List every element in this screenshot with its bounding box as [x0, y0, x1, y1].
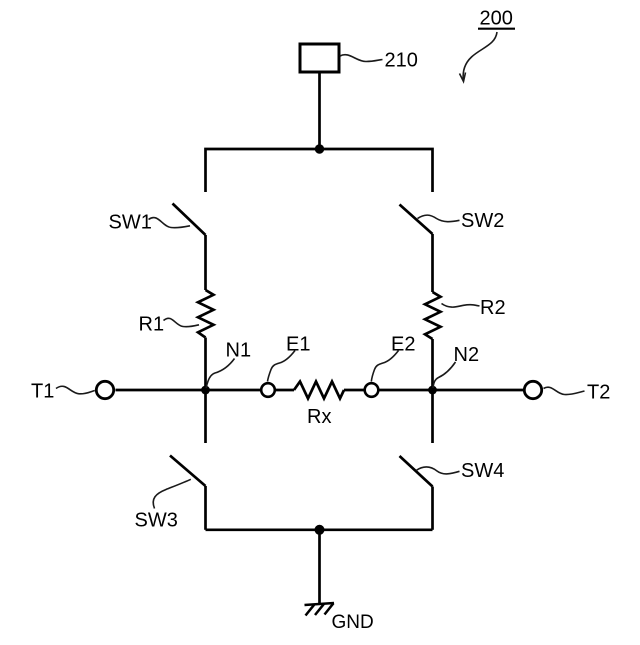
underline 200 [478, 28, 515, 30]
switch SW2 [400, 205, 433, 235]
leader N1 [206, 359, 234, 389]
wire rail to ground [318, 530, 321, 604]
svg-text:N1: N1 [226, 340, 252, 362]
svg-text:R1: R1 [139, 314, 165, 336]
node N1 [201, 386, 210, 395]
wire R2 to node N2 [431, 339, 434, 390]
leader E1 [268, 351, 296, 382]
box 210 [300, 44, 339, 72]
wire N2 to T2 [433, 389, 524, 392]
wire N1 down to SW3 [204, 390, 207, 443]
wire SW3 to bottom rail [204, 486, 207, 530]
leader T1 [56, 386, 95, 394]
wire R1 to node N1 [204, 338, 207, 391]
switch SW1 [173, 204, 206, 236]
leader SW1 [149, 218, 191, 228]
leader SW3 [153, 479, 191, 508]
leader E2 [371, 351, 398, 382]
resistor Rx [294, 382, 344, 399]
wire SW1 to R1 [204, 235, 207, 290]
leader 210 [340, 55, 383, 62]
svg-text:E2: E2 [391, 334, 415, 356]
svg-text:N2: N2 [454, 344, 480, 366]
leader R1 [164, 318, 200, 326]
electrode E1 [261, 383, 275, 397]
svg-text:R2: R2 [480, 297, 506, 319]
wire SW4 to bottom rail [431, 487, 434, 530]
arrow 200 [460, 32, 498, 82]
leader SW4 [416, 467, 460, 474]
leader lines [56, 55, 585, 509]
wire top rail [206, 149, 433, 192]
wire N2 down to SW4 [431, 390, 434, 443]
switch SW4 [400, 456, 433, 487]
svg-text:SW1: SW1 [109, 212, 152, 234]
wire SW2 to R2 [431, 234, 434, 292]
resistor R1 [198, 290, 214, 338]
wire N1 to E1 [206, 389, 261, 392]
ground [305, 603, 335, 616]
wire E2 to N2 [379, 389, 433, 392]
terminal T1 [96, 381, 113, 398]
node dot top rail [315, 144, 324, 153]
leader N2 [433, 362, 456, 388]
svg-text:210: 210 [385, 50, 418, 72]
leader R2 [442, 304, 480, 308]
svg-text:Rx: Rx [307, 406, 331, 428]
svg-text:T1: T1 [31, 381, 54, 403]
wire Rx to E2 [344, 389, 364, 392]
svg-text:SW4: SW4 [461, 460, 504, 482]
svg-text:T2: T2 [587, 382, 610, 404]
electrode E2 [365, 383, 379, 397]
node dot bottom rail [315, 525, 325, 535]
node N2 [428, 386, 437, 395]
svg-text:SW2: SW2 [461, 210, 504, 232]
leader SW2 [418, 215, 460, 222]
svg-text:E1: E1 [286, 334, 310, 356]
wire bottom rail [206, 528, 433, 531]
switch SW3 [170, 456, 206, 487]
svg-text:GND: GND [332, 612, 374, 633]
resistor R2 [425, 292, 441, 339]
svg-text:200: 200 [480, 8, 513, 30]
wire T1 to N1 [116, 389, 206, 392]
terminal T2 [524, 381, 541, 398]
svg-text:SW3: SW3 [135, 510, 178, 532]
leader T2 [544, 387, 585, 394]
wire E1 to Rx [276, 389, 295, 392]
wire box to top rail [318, 72, 321, 149]
